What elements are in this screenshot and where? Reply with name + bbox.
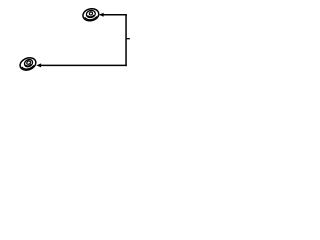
wire: bottom horizontal segment [41, 64, 127, 66]
arrowhead at bottom coil [36, 63, 41, 67]
wire: right vertical segment [125, 14, 127, 66]
stub terminal on vertical wire [126, 38, 130, 40]
coil L1 (top coil symbol) [83, 9, 99, 21]
wire: top horizontal segment [103, 14, 127, 16]
coil L2 (bottom coil symbol) [20, 58, 36, 70]
arrowhead at top coil [99, 13, 104, 17]
